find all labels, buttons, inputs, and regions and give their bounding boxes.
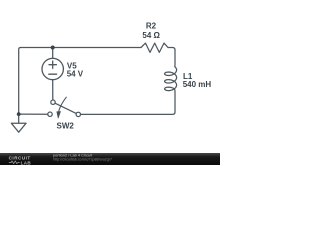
logo zigzag — [9, 161, 20, 164]
wire ground stem — [18, 114, 20, 123]
voltage source V5 — [42, 58, 63, 79]
svg-text:54 Ω: 54 Ω — [142, 31, 160, 40]
resistor R2 — [141, 43, 168, 52]
node junction top — [51, 46, 55, 50]
wire right rail to bottom wire — [81, 112, 175, 114]
ground — [11, 123, 26, 132]
svg-text:R2: R2 — [146, 22, 157, 31]
wire V5 bottom stem — [52, 80, 54, 100]
wire left rail and top wire — [19, 48, 141, 115]
svg-text:LAB: LAB — [21, 160, 32, 165]
wire V5 top stem — [52, 48, 54, 59]
switch SW2 — [51, 100, 55, 104]
wire resistor to top-right corner — [168, 48, 175, 51]
svg-text:http://circuitlab.com/c/7cp88n: http://circuitlab.com/c/7cp88nva2gr7 — [53, 158, 112, 162]
svg-text:540 mH: 540 mH — [183, 80, 212, 89]
wire switch to ground junction — [19, 113, 48, 115]
svg-text:54 V: 54 V — [67, 69, 84, 78]
node junction bottom-left — [17, 112, 21, 116]
svg-text:SW2: SW2 — [57, 122, 75, 131]
inductor L1 — [165, 50, 177, 112]
